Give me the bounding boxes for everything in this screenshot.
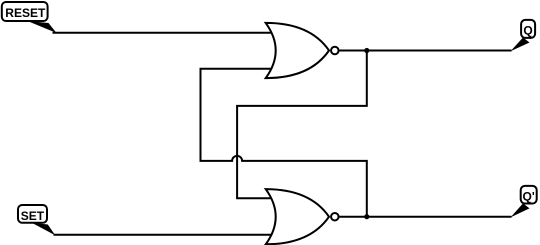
- svg-text:Q: Q: [523, 23, 532, 37]
- input label SET: [18, 205, 55, 235]
- junction node Q: [364, 48, 369, 53]
- wire U2 output to Q': [339, 216, 512, 218]
- svg-text:RESET: RESET: [5, 6, 46, 20]
- wire feedback from node Q to U2 input A: [237, 51, 367, 199]
- NOR gate U2: [266, 189, 339, 244]
- wire SET to U2 input B: [54, 234, 279, 236]
- output label Q': [511, 186, 537, 218]
- svg-text:Q': Q': [523, 190, 535, 204]
- input label RESET: [2, 2, 57, 33]
- NOR gate U1: [266, 23, 339, 78]
- wire feedback from node Q' to U1 input B (hop over crossing at x=237): [201, 69, 367, 217]
- wire U1 output to Q: [339, 50, 512, 52]
- junction node Q': [364, 214, 369, 219]
- wire RESET to U1 input A: [53, 32, 279, 34]
- output label Q: [511, 20, 536, 51]
- svg-text:SET: SET: [21, 209, 45, 223]
